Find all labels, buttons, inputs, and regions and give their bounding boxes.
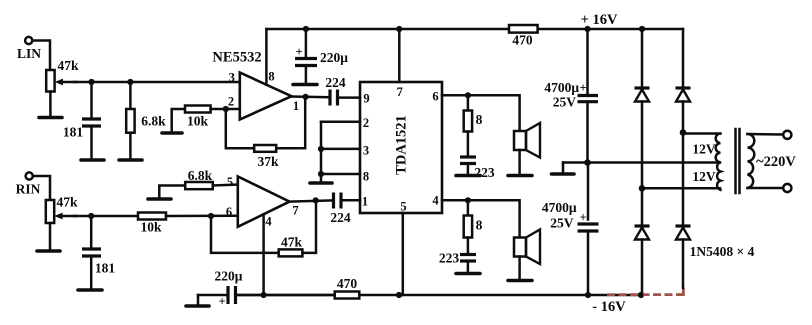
- resistor 470 (bottom rail): [335, 276, 360, 299]
- node pin6 (ch2): [208, 213, 214, 219]
- svg-text:LIN: LIN: [17, 46, 41, 61]
- wire D2 column continues: [682, 133, 685, 226]
- capacitor 4700u 25V (negative rail): [542, 163, 599, 296]
- svg-text:~220V: ~220V: [756, 154, 796, 170]
- svg-text:223: 223: [474, 165, 495, 180]
- svg-text:47k: 47k: [56, 195, 78, 210]
- svg-text:223: 223: [439, 251, 460, 266]
- svg-text:3: 3: [229, 71, 235, 85]
- potentiometer 47k (right channel): [46, 195, 78, 250]
- svg-text:47k: 47k: [281, 235, 303, 250]
- svg-text:- 16V: - 16V: [592, 299, 626, 315]
- svg-text:+ 16V: + 16V: [581, 12, 618, 28]
- diode D2 (upper right): [676, 29, 691, 133]
- svg-text:4700μ: 4700μ: [544, 80, 579, 95]
- diode D1 (upper left): [635, 29, 650, 188]
- node (6.8k, ch1): [127, 79, 133, 85]
- resistor 6.8k (left channel): [126, 82, 166, 158]
- capacitor 220u (top supply decoupling): [295, 29, 348, 83]
- svg-text:12V: 12V: [692, 142, 716, 157]
- svg-text:6: 6: [432, 90, 438, 104]
- svg-text:470: 470: [512, 33, 533, 48]
- resistor 470 (top rail): [509, 25, 538, 48]
- svg-text:5: 5: [227, 175, 233, 189]
- transformer core: [736, 129, 740, 193]
- svg-text:+: +: [579, 81, 586, 95]
- svg-text:8: 8: [476, 218, 483, 233]
- node (181 cap, ch1): [88, 79, 94, 85]
- capacitor 224 (ch2 coupling): [330, 193, 360, 226]
- resistor 10k (left channel, to pin 2): [172, 106, 226, 132]
- node (181 cap, ch2): [88, 213, 94, 219]
- terminal LIN: [17, 37, 41, 61]
- wire pin7 riser: [398, 29, 401, 82]
- red patch wire (bottom rail to right diode): [607, 288, 683, 295]
- capacitor 223 (zobel 1): [460, 157, 495, 180]
- ground (6.8k ch1): [119, 158, 142, 162]
- svg-text:6.8k: 6.8k: [188, 168, 213, 183]
- wire pin2 to op-amp: [226, 108, 240, 111]
- svg-text:4: 4: [432, 194, 439, 208]
- speaker LS2: [514, 230, 540, 279]
- wire pin2 stub: [321, 120, 360, 123]
- op-amp U1b NE5532: [226, 175, 299, 229]
- svg-text:2: 2: [228, 95, 234, 109]
- capacitor 224 (ch1 coupling): [325, 75, 360, 106]
- ground (181 ch2): [78, 288, 102, 292]
- feedback resistor 47k (ch2): [211, 200, 316, 256]
- ground (10k ch1): [162, 131, 182, 135]
- wire op-amp1 output: [292, 95, 330, 98]
- wire pin4 output: [442, 200, 520, 237]
- svg-text:25V: 25V: [553, 95, 577, 110]
- diode D4 (lower right): [676, 226, 691, 288]
- svg-text:1: 1: [362, 195, 368, 209]
- svg-text:8: 8: [476, 112, 483, 127]
- ground (speaker 2): [508, 279, 532, 283]
- node pin2 (ch1): [223, 106, 229, 112]
- resistor 6.8k (right channel, to pin 5): [159, 168, 238, 197]
- wire primary top + terminal: [748, 131, 792, 139]
- wire pin6 output: [442, 95, 520, 131]
- svg-text:12V: 12V: [692, 169, 716, 184]
- pin 4 drop wire: [262, 214, 265, 295]
- svg-text:181: 181: [63, 125, 84, 140]
- ground (220u top): [293, 83, 317, 87]
- capacitor 220u (bottom supply decoupling): [198, 269, 335, 309]
- svg-text:224: 224: [325, 75, 346, 90]
- svg-text:1: 1: [293, 99, 299, 113]
- svg-text:7: 7: [397, 85, 403, 99]
- svg-text:+: +: [218, 295, 225, 309]
- capacitor 181 (right channel): [82, 216, 115, 288]
- svg-text:47k: 47k: [57, 58, 79, 73]
- capacitor 4700u 25V (positive rail): [544, 29, 598, 163]
- node D1 to winding bottom: [639, 185, 646, 192]
- svg-text:7: 7: [292, 204, 298, 218]
- ground (6.8k ch2): [148, 197, 171, 201]
- svg-text:NE5532: NE5532: [212, 50, 261, 66]
- svg-text:4700μ: 4700μ: [542, 200, 577, 215]
- potentiometer 47k (left channel): [46, 58, 79, 116]
- resistor 8 (zobel 1): [464, 95, 483, 155]
- svg-text:10k: 10k: [187, 114, 209, 129]
- node output op-amp2: [313, 197, 319, 203]
- ground (220u bottom): [186, 304, 209, 308]
- svg-text:25V: 25V: [550, 216, 574, 231]
- svg-text:2: 2: [363, 116, 369, 130]
- resistor 8 (zobel 2): [464, 200, 483, 252]
- ground (zobel 1): [456, 174, 480, 178]
- svg-text:8: 8: [363, 170, 369, 184]
- svg-text:6: 6: [226, 205, 232, 219]
- svg-text:TDA1521: TDA1521: [394, 115, 410, 175]
- bottom rail -16V: [237, 292, 644, 298]
- svg-text:220μ: 220μ: [215, 269, 243, 284]
- svg-text:+: +: [295, 45, 302, 59]
- speaker LS1: [514, 123, 540, 174]
- capacitor 223 (zobel 2): [439, 251, 476, 272]
- ground (speaker 1): [508, 174, 532, 178]
- ground (181 ch1): [81, 158, 104, 162]
- svg-text:37k: 37k: [257, 154, 279, 169]
- wire winding top: [683, 132, 720, 135]
- svg-text:10k: 10k: [140, 220, 162, 235]
- svg-text:1N5408 × 4: 1N5408 × 4: [690, 244, 755, 259]
- wire winding bottom: [642, 187, 720, 190]
- svg-text:8: 8: [268, 70, 274, 84]
- transformer T1 secondary windings 12V+12V: [692, 134, 720, 190]
- ground (LIN pot): [39, 116, 62, 120]
- svg-text:224: 224: [330, 210, 351, 225]
- svg-text:9: 9: [363, 92, 369, 106]
- node output op-amp1: [303, 94, 309, 100]
- svg-text:181: 181: [95, 261, 116, 276]
- wire op-amp2 output: [290, 200, 333, 201]
- feedback resistor 37k (ch1): [226, 97, 305, 169]
- diode D3 (lower left): [635, 188, 650, 295]
- node zobel 2: [465, 197, 471, 203]
- ground (pins 2-3-8): [310, 181, 332, 185]
- capacitor 181 (left channel): [63, 82, 101, 158]
- svg-text:470: 470: [337, 276, 358, 291]
- transformer primary winding: [748, 134, 755, 188]
- wire LIN to pot: [32, 41, 50, 71]
- svg-text:5: 5: [400, 200, 406, 214]
- terminal RIN: [16, 172, 41, 196]
- svg-text:3: 3: [363, 144, 369, 158]
- wire RIN to pot: [33, 176, 50, 200]
- ground (centre tap): [552, 163, 575, 175]
- svg-text:+: +: [579, 211, 586, 225]
- op-amp U1a NE5532: [212, 50, 299, 120]
- ground (zobel 2): [456, 272, 480, 276]
- IC U2 TDA1521: [360, 82, 442, 214]
- svg-text:RIN: RIN: [16, 182, 41, 197]
- pin 8 riser wire: [265, 29, 268, 85]
- svg-text:6.8k: 6.8k: [141, 114, 166, 129]
- top rail +16V: [266, 26, 683, 32]
- wire pins 2-3-8 link: [318, 122, 360, 181]
- resistor 10k (right channel, series): [138, 213, 238, 235]
- node D2 to winding top: [680, 129, 687, 136]
- ground (RIN pot): [37, 249, 60, 253]
- node zobel 1: [465, 92, 471, 98]
- mid rail (centre tap / ground): [563, 159, 720, 166]
- wire pin5 drop: [402, 213, 405, 295]
- wire primary bottom + terminal: [748, 184, 792, 192]
- wire main line right channel: [74, 215, 138, 218]
- svg-text:4: 4: [265, 215, 272, 229]
- svg-text:220μ: 220μ: [320, 50, 348, 65]
- wire main line left channel: [74, 81, 240, 84]
